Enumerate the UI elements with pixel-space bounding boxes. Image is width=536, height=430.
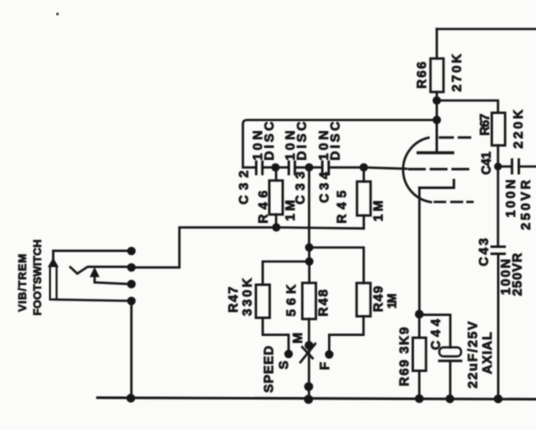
wire C41 node down to C43 <box>497 167 499 246</box>
switch contact arrow <box>90 268 98 277</box>
node R47 branch <box>305 257 313 265</box>
svg-text:270K: 270K <box>449 53 464 92</box>
terminal row2 <box>127 263 136 272</box>
wire cathode to C44 <box>419 315 450 348</box>
wire node to R48 top <box>308 262 310 283</box>
svg-text:R48: R48 <box>316 290 331 317</box>
svg-text:56K: 56K <box>284 284 299 317</box>
node rail R69 <box>415 394 424 403</box>
terminal S <box>284 350 293 359</box>
svg-text:SPEED: SPEED <box>261 346 276 393</box>
svg-text:DISC: DISC <box>261 121 276 161</box>
capacitor C44 top plate <box>439 347 461 356</box>
capacitor C33 <box>276 166 288 168</box>
wire to R47 top <box>263 262 310 285</box>
capacitor C34 <box>309 166 321 168</box>
wire C34 node to grid <box>364 167 407 168</box>
svg-text:R69 3K9: R69 3K9 <box>397 327 412 386</box>
wire R69 to rail <box>418 371 420 399</box>
triode cathode <box>419 180 454 188</box>
node C34-R45 <box>360 163 368 171</box>
svg-text:1M: 1M <box>387 294 399 309</box>
wire R49 bottom to F <box>329 316 363 350</box>
resistor R49 <box>357 283 371 316</box>
resistor R47 <box>256 285 270 318</box>
node R46 bottom <box>272 223 280 231</box>
svg-text:R49: R49 <box>371 286 386 312</box>
node rail footswitch <box>126 394 135 403</box>
svg-text:DISC: DISC <box>294 121 309 161</box>
node rail C43 <box>494 395 503 404</box>
node plate junction lower <box>433 116 441 124</box>
resistor R46 <box>275 167 277 180</box>
node R49 branch <box>305 243 313 251</box>
ground rail <box>98 398 536 400</box>
wire R48 bottom to rail <box>308 319 310 398</box>
svg-text:220K: 220K <box>511 109 526 149</box>
node above rail <box>304 382 313 391</box>
triode envelope arc <box>403 138 431 202</box>
svg-text:VIB/TREM: VIB/TREM <box>17 254 29 312</box>
terminal F <box>325 350 334 359</box>
svg-text:100N: 100N <box>503 180 518 218</box>
triode grid dashes <box>409 168 468 171</box>
capacitor C32 <box>255 162 258 174</box>
switch lever <box>70 267 131 274</box>
terminal row3 <box>127 280 136 289</box>
wire cathode to R69 <box>418 314 420 338</box>
svg-text:M: M <box>290 333 305 344</box>
node cathode junction <box>415 310 424 319</box>
svg-text:C44: C44 <box>428 318 443 350</box>
terminal row4 <box>127 297 136 306</box>
wire row4 to rail <box>130 301 132 398</box>
resistor R67 <box>492 113 505 146</box>
wire contact to row3 <box>95 277 132 285</box>
svg-text:R66: R66 <box>414 62 429 89</box>
resistor R69 <box>413 338 426 371</box>
capacitor C43 <box>492 245 505 248</box>
wire to R49 top <box>309 248 364 284</box>
wire top to R66 <box>436 29 438 59</box>
jack body <box>50 266 57 300</box>
wire C43 to rail <box>497 254 499 399</box>
node C32-C33 <box>271 163 279 171</box>
svg-text:C43: C43 <box>476 238 491 266</box>
pot wiper arrow <box>300 344 315 362</box>
svg-text:R47: R47 <box>226 287 241 313</box>
node rail C44 <box>446 394 455 403</box>
resistor R45 <box>363 167 365 181</box>
capacitor C41 <box>498 165 510 167</box>
svg-text:DISC: DISC <box>328 121 343 161</box>
svg-text:1M: 1M <box>371 201 386 222</box>
svg-text:AXIAL: AXIAL <box>480 332 495 374</box>
triode envelope dashes bottom <box>435 201 473 203</box>
triode envelope dashes top <box>440 136 470 138</box>
wire R66 bottom to plate <box>436 92 438 152</box>
svg-text:C41: C41 <box>479 152 494 175</box>
wire jack tip to row1 <box>53 251 131 259</box>
terminal row1 <box>127 247 136 256</box>
resistor R66 <box>431 59 444 93</box>
svg-text:330K: 330K <box>240 277 255 316</box>
jack tip arrow <box>49 259 58 267</box>
svg-text:R67: R67 <box>477 114 492 136</box>
svg-text:250VR: 250VR <box>510 252 525 296</box>
wire node down <box>308 248 310 262</box>
svg-text:C33: C33 <box>293 172 308 205</box>
wire jack sleeve to row4 <box>53 300 131 301</box>
svg-text:FOOTSWITCH: FOOTSWITCH <box>32 239 44 315</box>
svg-text:R45: R45 <box>334 191 349 224</box>
node plate junction upper <box>433 96 441 104</box>
wire plate to R67 <box>437 101 498 113</box>
svg-text:C34: C34 <box>317 171 332 203</box>
wire top HT rail <box>437 28 536 30</box>
svg-text:S: S <box>276 360 291 369</box>
svg-text:F: F <box>317 362 332 370</box>
wire feedback plate to C32 <box>243 120 437 167</box>
node C33-C34 <box>305 163 313 171</box>
svg-text:R46: R46 <box>256 191 271 224</box>
wire R67 bottom <box>497 145 499 166</box>
svg-text:C32: C32 <box>236 171 251 205</box>
wire R47 bottom to S <box>263 318 289 350</box>
node C41 junction <box>494 163 502 171</box>
wire C44 to rail <box>449 361 451 399</box>
node wiper <box>305 341 314 350</box>
capacitor C44 bottom plate <box>439 360 461 363</box>
node rail pot <box>304 395 313 404</box>
paper speck <box>56 12 59 15</box>
wire R45 bottom to R46 bottom <box>276 227 364 228</box>
wire C33-C34 node down <box>308 167 310 247</box>
triode plate <box>418 151 453 154</box>
wire footswitch row2 to R46 bottom <box>131 227 276 267</box>
wire cathode down <box>418 188 420 314</box>
resistor R48 <box>302 283 316 319</box>
